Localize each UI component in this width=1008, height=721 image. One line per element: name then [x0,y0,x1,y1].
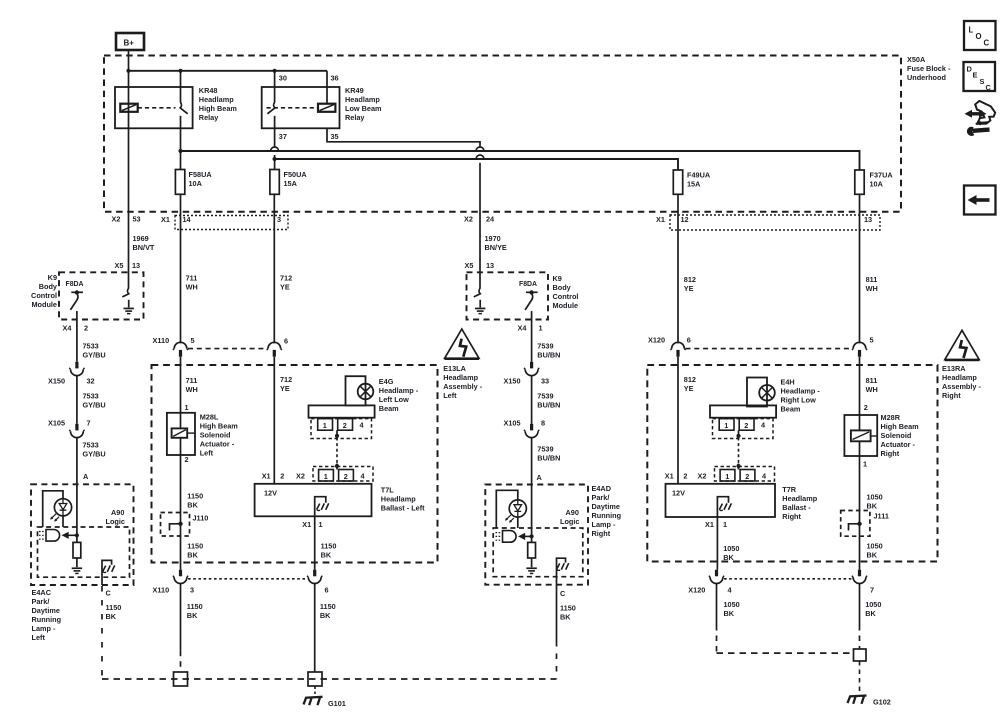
svg-text:X4: X4 [518,323,528,332]
svg-text:O: O [976,32,982,41]
svg-text:1150: 1150 [560,604,576,613]
svg-text:X1: X1 [705,520,714,529]
svg-text:712: 712 [280,274,292,283]
svg-text:Left Low: Left Low [379,395,409,404]
svg-text:Right: Right [881,449,900,458]
svg-text:F49UA: F49UA [687,170,711,179]
battery B+ terminal [116,33,144,50]
svg-text:4: 4 [728,586,733,595]
icon back arrow box [964,186,996,215]
ground link dashed to junction square right [717,652,855,654]
svg-text:YE: YE [684,384,694,393]
logic gate left [39,530,79,542]
ballast T7R Headlamp Ballast - Right [666,484,818,521]
lamp connector bar E4G [309,405,375,417]
svg-text:Headlamp: Headlamp [782,494,817,503]
label X50A Fuse Block - Underhood [907,55,951,82]
wire jumper lamp to ballast left [335,430,339,469]
svg-text:J110: J110 [193,513,209,522]
wire T7R ground output 1050 BK [717,517,739,570]
svg-text:13: 13 [486,261,494,270]
junction square left on ground bus [174,651,188,686]
svg-text:5: 5 [870,335,874,344]
svg-text:A: A [83,472,89,481]
svg-text:4: 4 [761,420,766,429]
lamp E4AC bulb [50,499,71,522]
svg-text:12V: 12V [672,488,685,497]
wire 7533 GY/BU label 1 [83,341,106,359]
svg-text:Right: Right [942,391,961,400]
lamp E4G Headlamp - Left Low Beam [346,376,419,413]
lamp E4H Headlamp - Right Low Beam [747,378,820,414]
wire C right riser [556,585,558,679]
wire 1150 BK to ground bus left [181,584,203,651]
label E13LA Headlamp Assembly - Left [443,364,483,400]
junction square G102 [854,649,867,661]
svg-text:7533: 7533 [83,341,99,350]
svg-text:BK: BK [723,553,734,562]
svg-text:Assembly -: Assembly - [942,382,982,391]
svg-text:X4: X4 [63,323,73,332]
svg-text:1150: 1150 [321,542,337,551]
svg-text:A90: A90 [566,508,579,517]
svg-text:Control: Control [553,292,579,301]
svg-text:E4G: E4G [379,377,394,386]
svg-text:E13LA: E13LA [443,364,466,373]
svg-text:BK: BK [867,551,878,560]
svg-text:53: 53 [133,214,141,223]
svg-text:BU/BN: BU/BN [537,350,560,359]
wire 812 YE inside assembly [678,357,696,484]
connector X110 top row pins 5,6 [153,336,289,357]
wire 811 WH from F37UA to X120 [860,194,878,343]
svg-text:YE: YE [280,384,290,393]
wire 712 YE inside assembly [274,357,292,484]
wire 7533 GY/BU label 2 [77,376,106,424]
svg-text:Daytime: Daytime [32,606,60,615]
svg-text:37: 37 [279,132,287,141]
splice J110 [161,513,209,537]
wire 1150 BK label C left [106,603,122,621]
svg-text:X105: X105 [48,418,65,427]
svg-text:BN/YE: BN/YE [485,243,507,252]
svg-text:30: 30 [279,74,287,83]
svg-text:812: 812 [684,275,696,284]
connector X120 top row pins 6,5 [648,335,874,356]
svg-text:E: E [973,71,978,80]
lamp pin row 1,2,4 E4G [311,419,372,439]
svg-text:X2: X2 [296,471,305,480]
node X4 pin 2 [63,323,89,332]
ground bus G101 dashed [102,678,557,680]
svg-text:1050: 1050 [867,542,883,551]
svg-text:2: 2 [280,471,284,480]
svg-text:Underhood: Underhood [907,73,946,82]
svg-text:12V: 12V [264,488,277,497]
wire lamp to logic left [43,491,63,527]
svg-text:GY/BU: GY/BU [83,449,106,458]
ballast pin row X2 1,2,4 left [296,467,373,482]
svg-text:1050: 1050 [865,600,881,609]
svg-text:Headlamp -: Headlamp - [781,387,821,396]
svg-text:X5: X5 [115,261,124,270]
svg-text:C: C [986,83,992,92]
wire 7539 BU/BN label 1 [537,341,560,359]
node X1 pin 1 below T7L [302,520,322,529]
svg-text:X1: X1 [161,215,170,224]
svg-text:Body: Body [553,283,572,292]
svg-text:15A: 15A [284,179,298,188]
svg-text:6: 6 [687,335,691,344]
wire F8DA output to X4 2 [76,311,78,362]
svg-text:Actuator -: Actuator - [881,440,916,449]
svg-text:3: 3 [277,215,281,224]
K9 Body Control Module right [467,272,579,319]
E13LA Headlamp Assembly - Left dashed box [152,365,438,563]
svg-text:E4H: E4H [781,378,795,387]
svg-text:KR49: KR49 [345,86,364,95]
svg-text:Headlamp: Headlamp [942,373,977,382]
svg-text:Park/: Park/ [592,493,610,502]
svg-text:7: 7 [870,586,874,595]
wire 711 WH inside assembly [181,357,198,413]
svg-text:1: 1 [185,403,189,412]
chassis ground C branch left [102,560,115,585]
E4AD Park/Daytime Running Lamp - Right box [485,484,621,585]
svg-text:M28R: M28R [881,413,901,422]
svg-text:Module: Module [31,300,57,309]
svg-text:Daytime: Daytime [592,502,620,511]
wire 712 YE from F50UA to X110 [274,194,292,343]
ballast T7L Headlamp Ballast - Left [255,484,426,517]
svg-text:X150: X150 [504,376,521,385]
svg-text:BK: BK [867,501,878,510]
svg-text:1: 1 [863,460,867,469]
svg-text:1150: 1150 [320,602,336,611]
svg-text:24: 24 [486,214,495,223]
svg-text:GY/BU: GY/BU [83,350,106,359]
svg-text:BK: BK [560,613,571,622]
wire T7L ground output 1150 BK [315,516,337,569]
svg-text:Running: Running [32,615,62,624]
svg-text:32: 32 [87,376,95,385]
relay KR49 Headlamp Low Beam Relay [262,86,382,129]
svg-text:2: 2 [84,323,88,332]
svg-text:BN/VT: BN/VT [133,243,155,252]
wire 711 WH from F58UA to X110 [181,194,198,343]
wire 1150 BK label C right [560,604,576,622]
svg-text:Assembly -: Assembly - [443,382,483,391]
svg-text:10A: 10A [870,179,884,188]
svg-text:BK: BK [106,612,117,621]
svg-text:Solenoid: Solenoid [881,431,912,440]
label E13RA Headlamp Assembly - Right [942,364,982,400]
resistor left [72,542,82,574]
svg-text:X120: X120 [688,586,705,595]
svg-text:X1: X1 [262,471,271,480]
wire 1050 BK below J111 [867,542,883,560]
svg-text:1: 1 [324,472,328,481]
svg-text:4: 4 [361,471,366,480]
junction square right on ground bus [308,672,322,686]
svg-text:812: 812 [684,375,696,384]
svg-text:1050: 1050 [724,600,740,609]
svg-text:A: A [537,473,543,482]
svg-text:F8DA: F8DA [66,281,84,288]
svg-text:Body: Body [39,282,58,291]
svg-text:Right: Right [782,512,801,521]
svg-text:7533: 7533 [83,391,99,400]
wire jumper lamp to ballast right [736,430,740,469]
svg-text:Right: Right [592,529,611,538]
svg-text:1: 1 [539,323,543,332]
svg-text:BK: BK [187,611,198,620]
svg-text:7533: 7533 [83,440,99,449]
connector X120 bottom row pins 4,7 [688,570,874,595]
svg-text:7539: 7539 [537,444,553,453]
E13RA Headlamp Assembly - Right dashed box [647,365,937,562]
svg-text:WH: WH [866,385,878,394]
connector X1 pins 14,3 dotted box [161,215,288,230]
node X2 pin 24 [464,214,495,223]
wire 1970 BN/YE label [485,234,507,252]
svg-text:X110: X110 [153,336,170,345]
svg-text:Running: Running [592,511,622,520]
svg-text:2: 2 [744,421,748,430]
svg-text:BK: BK [724,609,735,618]
svg-text:811: 811 [866,275,878,284]
svg-text:C: C [560,589,566,598]
svg-text:2: 2 [185,455,189,464]
svg-text:1150: 1150 [187,542,203,551]
connector X105 pin 8 [504,418,546,437]
svg-text:Relay: Relay [345,113,365,122]
svg-text:High Beam: High Beam [199,104,238,113]
switch F8DA left [66,281,84,310]
svg-text:YE: YE [684,284,694,293]
node X1 pin 1 below T7R [705,520,727,529]
A90 Logic inner box right [493,508,583,577]
svg-text:BK: BK [321,551,332,560]
fuse F50UA 15A [270,170,307,195]
fuse F37UA 10A [855,170,894,194]
svg-text:X2: X2 [112,214,121,223]
svg-text:Beam: Beam [781,405,801,414]
A90 Logic inner box left [38,508,130,577]
svg-text:3: 3 [190,586,194,595]
svg-text:Lamp -: Lamp - [592,520,616,529]
svg-text:7539: 7539 [537,391,553,400]
svg-text:X2: X2 [464,214,473,223]
actuator M28L High Beam Solenoid Actuator - Left [167,403,238,464]
node X5 pin 13 left [115,261,141,270]
svg-text:8: 8 [541,418,545,427]
fuse block X50A dashed border [104,56,901,212]
node X5 pin 13 right [465,261,495,270]
svg-text:33: 33 [541,376,549,385]
fuse F49UA 15A [673,170,711,194]
lamp connector bar E4H [710,405,776,417]
svg-text:1: 1 [323,421,327,430]
lamp E4AD bulb [505,500,526,523]
connector X150 pin 32 [48,362,95,386]
ground G101 [304,686,346,708]
svg-text:711: 711 [186,274,198,283]
svg-text:Lamp -: Lamp - [32,624,56,633]
svg-text:Low Beam: Low Beam [345,104,382,113]
svg-text:High Beam: High Beam [881,422,920,431]
svg-text:811: 811 [866,376,878,385]
svg-text:Headlamp: Headlamp [345,95,380,104]
K9 Body Control Module left [31,272,143,319]
svg-text:F58UA: F58UA [189,170,213,179]
wire 7533 GY/BU label 3 [77,438,106,543]
svg-text:2: 2 [683,471,687,480]
svg-text:15A: 15A [687,179,701,188]
E4AC Park/Daytime Running Lamp - Left box [31,484,134,642]
lamp pin row 1,2,4 E4H [713,419,774,439]
svg-text:1969: 1969 [133,234,149,243]
wire KR49 pin35 control to X2 24 (hops bus A and B) [327,128,484,288]
bus B low beam feed [275,159,678,170]
svg-text:Right Low: Right Low [781,396,817,405]
svg-text:K9: K9 [553,274,562,283]
icon LOC box [964,21,996,50]
svg-text:Fuse Block -: Fuse Block - [907,64,951,73]
logic gate right [496,531,534,543]
svg-text:2: 2 [745,472,749,481]
svg-text:X50A: X50A [907,55,926,64]
svg-text:X110: X110 [153,586,170,595]
wire 1050 BK to junction square [860,584,882,649]
resistor right [526,542,536,574]
svg-text:BK: BK [187,551,198,560]
wire bus drop to KR49 pin 36 [326,71,328,104]
svg-text:High Beam: High Beam [200,421,239,430]
fuse F58UA 10A [175,170,212,195]
wire lamp to logic right [496,490,518,528]
wire M28L output 1150 BK [181,455,204,570]
ballast pin row X2 1,2,4 right [698,467,775,482]
svg-text:F37UA: F37UA [870,170,894,179]
svg-text:Left: Left [32,633,46,642]
svg-text:Headlamp: Headlamp [381,495,416,504]
warning triangle left [445,329,479,359]
svg-text:E4AC: E4AC [32,588,52,597]
svg-text:G101: G101 [328,699,346,708]
svg-text:X5: X5 [465,261,474,270]
relay KR48 Headlamp High Beam Relay [115,86,237,129]
svg-text:Solenoid: Solenoid [200,430,231,439]
warning triangle right [945,330,979,360]
connector X110 bottom row pins 3,6 [153,570,329,595]
svg-text:7539: 7539 [537,341,553,350]
connector X150 pin 33 [504,362,550,386]
svg-text:4: 4 [762,471,767,480]
svg-text:J111: J111 [874,511,889,520]
svg-text:36: 36 [331,74,339,83]
svg-text:T7R: T7R [782,485,797,494]
svg-text:Beam: Beam [379,404,399,413]
svg-text:13: 13 [864,215,872,224]
svg-text:C: C [984,39,990,48]
svg-text:1: 1 [319,520,323,529]
svg-text:B+: B+ [124,39,135,48]
svg-text:1: 1 [725,472,729,481]
svg-text:712: 712 [280,375,292,384]
wire bus drop to KR48 switch [180,71,182,103]
svg-text:1: 1 [723,520,727,529]
svg-text:12: 12 [681,215,689,224]
svg-text:Ballast -: Ballast - [782,503,811,512]
svg-text:Headlamp -: Headlamp - [379,386,419,395]
svg-text:X2: X2 [698,471,707,480]
svg-text:1150: 1150 [187,602,203,611]
svg-text:7: 7 [87,418,91,427]
wire 811 WH inside assembly [860,357,878,415]
svg-text:Left: Left [200,448,214,457]
wire 1150 BK below J110 [187,542,203,560]
wire 812 YE from F49UA to X120 [678,194,696,343]
svg-text:M28L: M28L [200,412,219,421]
wire bus drop to KR49 pin 30 [274,71,276,103]
svg-text:L: L [969,26,974,35]
svg-text:2: 2 [864,403,868,412]
wire B+ feed down through relay coil to X2/53 [128,50,130,289]
svg-text:T7L: T7L [381,486,395,495]
wire 1050 BK to ground link left [717,584,740,653]
node X1 pin 2 on T7R [665,471,688,480]
node B+ bus [126,69,327,73]
svg-text:C: C [106,588,112,597]
wire KR48 output to bus A and fuse F58UA [178,128,182,169]
svg-text:X105: X105 [504,418,521,427]
svg-text:Ballast - Left: Ballast - Left [381,504,425,513]
svg-text:WH: WH [186,385,198,394]
chassis ground C branch right [557,558,569,585]
svg-text:6: 6 [325,586,329,595]
svg-text:F50UA: F50UA [284,170,308,179]
svg-text:Relay: Relay [199,113,219,122]
svg-text:X1: X1 [302,520,311,529]
node X1 pin 2 on T7L [262,471,285,480]
svg-text:2: 2 [343,421,347,430]
wire C dashed to ground bus [101,586,103,679]
svg-text:1050: 1050 [723,544,739,553]
connector X105 pin 7 [48,418,91,437]
connector X1 pins 12,13 dotted box [656,215,880,230]
svg-text:BK: BK [187,500,198,509]
svg-text:711: 711 [186,376,198,385]
svg-text:Module: Module [553,301,579,310]
switch F8DA right [519,281,538,310]
svg-text:BU/BN: BU/BN [537,453,560,462]
svg-text:Actuator -: Actuator - [200,439,235,448]
switch to ground inside K9 right [474,288,486,314]
svg-text:1150: 1150 [187,491,203,500]
icon repair arrow and wrench [965,101,996,136]
svg-text:X1: X1 [665,471,674,480]
ground G102 [848,661,891,707]
node X4 pin 1 [518,323,543,332]
wire M28R output 1050 BK [860,456,883,570]
svg-text:Headlamp: Headlamp [443,373,478,382]
svg-text:E4AD: E4AD [592,484,611,493]
wire 1150 BK to G101 [315,584,336,672]
svg-text:BK: BK [320,611,331,620]
svg-text:Left: Left [443,391,457,400]
svg-text:WH: WH [186,283,198,292]
